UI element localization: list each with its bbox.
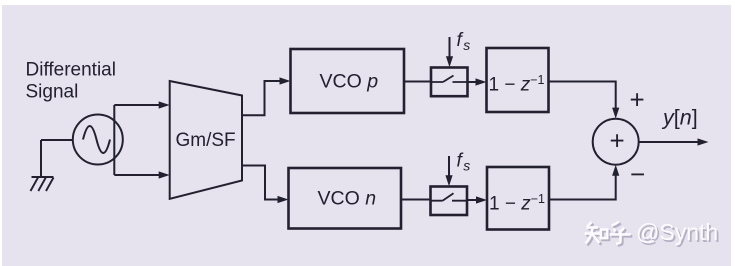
output wire y[n]	[639, 141, 700, 143]
sampler switch S1	[431, 68, 468, 97]
svg-text:Gm/SF: Gm/SF	[176, 130, 236, 151]
wire source vertical bus	[113, 105, 115, 175]
svg-text:VCO p: VCO p	[320, 71, 379, 93]
wire ground-to-source	[41, 140, 73, 177]
svg-text:VCO n: VCO n	[318, 188, 377, 210]
svg-text:@Synth: @Synth	[636, 219, 718, 245]
svg-text:Signal: Signal	[26, 82, 79, 103]
block 1-z^-1 top	[487, 48, 549, 112]
wire VCO p to sampler	[404, 81, 431, 83]
wire sampler to differentiator bottom	[467, 199, 479, 201]
wire differentiator bottom to summer	[549, 173, 616, 200]
wire source to Gm/SF bottom input	[114, 174, 161, 176]
wire Gm/SF to VCO n	[242, 166, 280, 200]
watermark zhihu @Synth	[585, 219, 720, 247]
wire Gm/SF to VCO p	[242, 81, 282, 115]
amplifier U1 Gm/SF trapezoid	[170, 81, 242, 199]
ground	[31, 177, 54, 191]
wire sampler to differentiator top	[468, 81, 479, 83]
sampler switch S2	[431, 187, 468, 216]
block VCO p	[291, 49, 405, 113]
svg-text:y[n]: y[n]	[661, 106, 698, 130]
svg-text:+: +	[630, 85, 645, 115]
fs clock arrow top	[449, 37, 451, 59]
block VCO n	[289, 168, 402, 229]
source V1 (sine source)	[73, 115, 123, 165]
wire differentiator top to summer	[549, 82, 616, 111]
fs clock arrow bottom	[448, 156, 450, 178]
wire VCO n to sampler bottom	[401, 199, 431, 201]
wire source to Gm/SF top input	[114, 104, 161, 106]
svg-text:−: −	[630, 159, 645, 189]
block 1-z^-1 bottom	[487, 167, 549, 230]
svg-text:Differential: Differential	[26, 60, 116, 81]
svg-text:+: +	[610, 126, 625, 156]
summer U2	[593, 119, 639, 165]
